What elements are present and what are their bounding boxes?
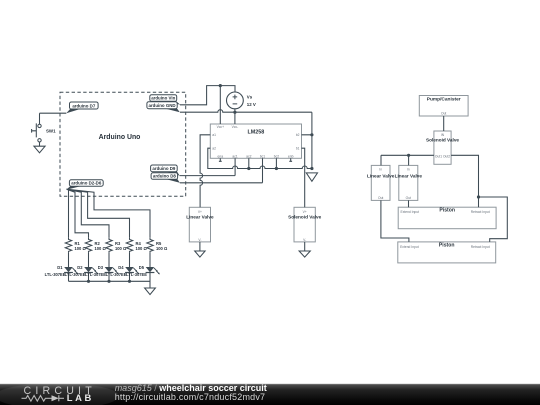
svg-text:Piston: Piston	[439, 242, 455, 248]
svg-text:http://circuitlab.com/c7nducf5: http://circuitlab.com/c7nducf52mdv7	[115, 392, 266, 402]
svg-text:Out1 Out2: Out1 Out2	[435, 154, 450, 158]
svg-text:Out: Out	[406, 196, 411, 200]
svg-text:b2: b2	[296, 133, 300, 137]
svg-text:arduino Vin: arduino Vin	[151, 96, 175, 101]
svg-text:Linear Valve: Linear Valve	[367, 173, 395, 178]
svg-text:LTL-307EE: LTL-307EE	[106, 272, 127, 277]
svg-text:R4: R4	[136, 241, 142, 246]
svg-text:R2: R2	[95, 241, 101, 246]
svg-text:LTL-307EE: LTL-307EE	[65, 272, 86, 277]
svg-text:LTL-307EE: LTL-307EE	[126, 272, 147, 277]
svg-text:100 Ω: 100 Ω	[156, 246, 168, 251]
svg-text:arduino GND: arduino GND	[149, 103, 176, 108]
svg-text:Linear Valve: Linear Valve	[395, 173, 423, 178]
svg-text:D5: D5	[139, 265, 145, 270]
svg-text:Vs: Vs	[247, 94, 253, 99]
svg-text:In: In	[407, 167, 410, 171]
svg-text:Vcc+: Vcc+	[217, 125, 224, 129]
svg-text:V-: V-	[303, 238, 306, 242]
svg-text:Retract Input: Retract Input	[471, 245, 490, 249]
svg-text:100 Ω: 100 Ω	[136, 246, 148, 251]
svg-text:V+: V+	[303, 210, 307, 214]
svg-text:R5: R5	[156, 241, 162, 246]
svg-text:a1: a1	[212, 133, 216, 137]
svg-text:100 Ω: 100 Ω	[95, 246, 107, 251]
svg-text:Vcc-: Vcc-	[232, 125, 239, 129]
svg-text:LTL-307EE: LTL-307EE	[85, 272, 106, 277]
svg-text:Retract Input: Retract Input	[471, 210, 490, 214]
svg-text:Out: Out	[441, 111, 446, 115]
svg-text:Extend Input: Extend Input	[401, 210, 420, 214]
svg-text:Arduino Uno: Arduino Uno	[99, 134, 141, 141]
svg-text:Pump/Canister: Pump/Canister	[427, 97, 461, 103]
svg-text:Out: Out	[378, 196, 383, 200]
svg-text:Piston: Piston	[439, 208, 455, 214]
svg-text:bc2: bc2	[274, 154, 279, 158]
svg-text:arduino D7: arduino D7	[72, 103, 95, 108]
svg-text:bc1: bc1	[260, 154, 265, 158]
svg-text:100 Ω: 100 Ω	[115, 246, 127, 251]
svg-text:Solenoid Valve: Solenoid Valve	[426, 138, 459, 143]
svg-text:V+: V+	[198, 210, 202, 214]
svg-text:LM258: LM258	[248, 130, 265, 136]
svg-text:D1: D1	[57, 265, 63, 270]
svg-text:ena: ena	[218, 154, 224, 158]
svg-text:b1: b1	[296, 147, 300, 151]
svg-text:enb: enb	[288, 154, 294, 158]
svg-text:arduino D2-D6: arduino D2-D6	[71, 181, 102, 186]
svg-text:Solenoid Valve: Solenoid Valve	[288, 215, 321, 220]
svg-text:D3: D3	[98, 265, 104, 270]
svg-text:LAB: LAB	[67, 392, 94, 403]
svg-text:a2: a2	[212, 147, 216, 151]
svg-text:SW1: SW1	[46, 128, 56, 133]
svg-text:ac1: ac1	[232, 154, 237, 158]
svg-text:100 Ω: 100 Ω	[75, 246, 87, 251]
svg-text:Extend Input: Extend Input	[400, 245, 419, 249]
svg-text:D2: D2	[77, 265, 83, 270]
svg-text:arduino D8: arduino D8	[153, 174, 176, 179]
svg-text:ac2: ac2	[246, 154, 251, 158]
svg-text:Linear Valve: Linear Valve	[186, 215, 214, 220]
svg-text:arduino D9: arduino D9	[152, 166, 175, 171]
svg-text:R3: R3	[115, 241, 121, 246]
svg-text:In: In	[379, 167, 382, 171]
svg-text:D4: D4	[118, 265, 124, 270]
svg-text:12 V: 12 V	[247, 102, 256, 107]
svg-text:R1: R1	[75, 241, 81, 246]
svg-text:LTL-307EE: LTL-307EE	[45, 272, 66, 277]
svg-text:V-: V-	[198, 238, 201, 242]
